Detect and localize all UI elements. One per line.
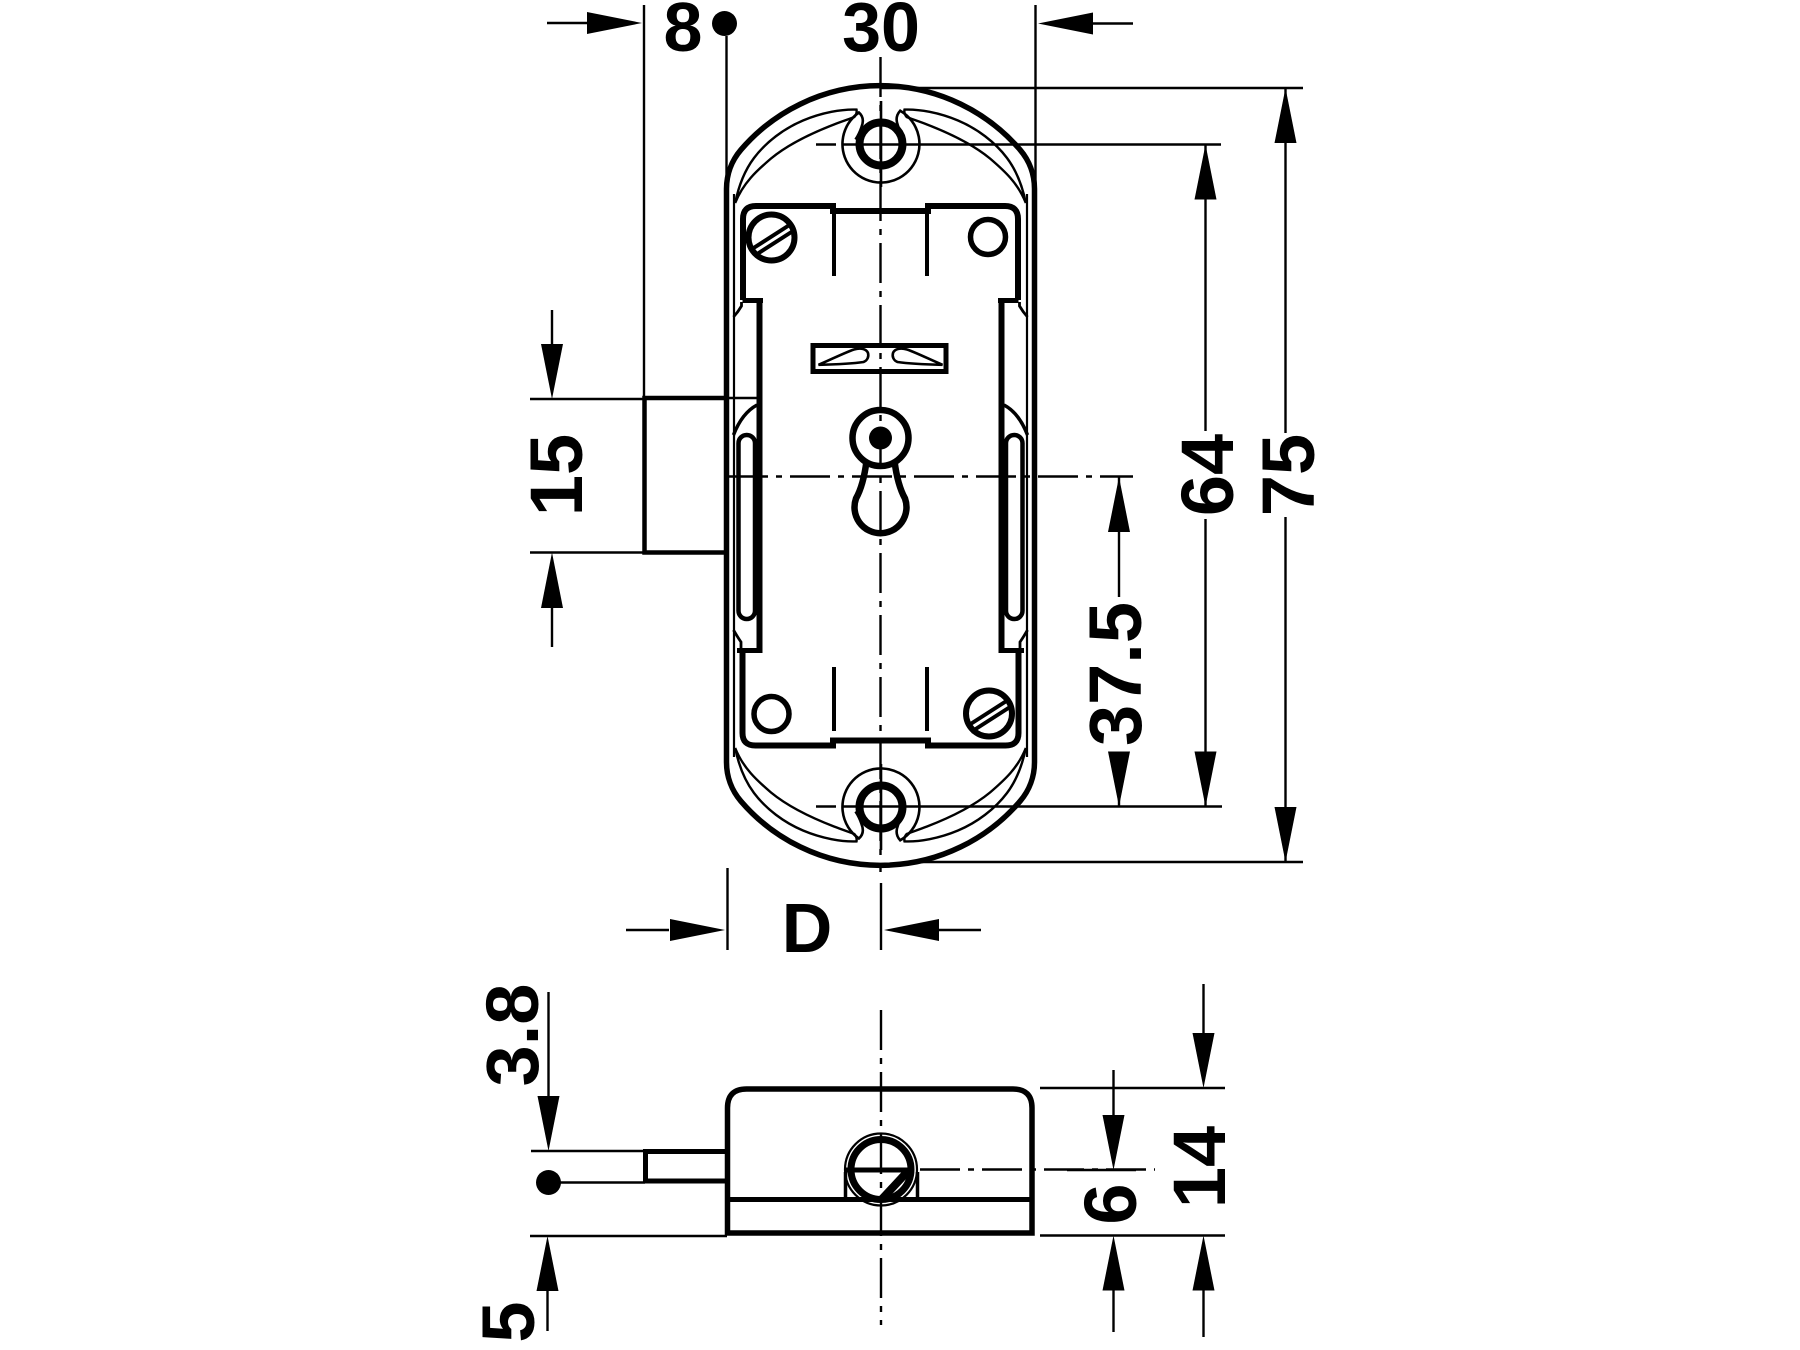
top screw axis line [816, 143, 1221, 145]
right flange column top cap [998, 298, 1019, 303]
dim 3.8/5: reference dot [536, 1170, 561, 1195]
side view plate/case divider [728, 1197, 1033, 1202]
vertical centerline (top view) [879, 57, 881, 872]
dim 30: arrow [1038, 13, 1133, 35]
svg-text:3.8: 3.8 [471, 984, 554, 1087]
dim 64: dimension line with arrows [1195, 145, 1217, 807]
lock case outline lower [743, 651, 1019, 746]
svg-text:15: 15 [515, 434, 598, 516]
dim 75: top extension line [880, 87, 1303, 89]
latch bolt (top view, protruding left) [645, 398, 727, 553]
dim 30: extension line right [1034, 5, 1036, 245]
dim 8: arrow [547, 12, 642, 34]
dim 8/30: reference dot [712, 11, 737, 36]
svg-text:30: 30 [842, 0, 920, 66]
svg-text:D: D [782, 889, 833, 967]
left flange top jog [734, 302, 742, 317]
bottom screw axis line [816, 805, 1222, 807]
side view vertical centerline [880, 1010, 882, 1325]
case tick marks lower [834, 667, 927, 731]
dim 8: extension line (plate left edge) [725, 36, 727, 250]
svg-text:75: 75 [1247, 434, 1330, 516]
case hole top-right [971, 220, 1006, 255]
dim 3.8: extension line [531, 1150, 645, 1152]
svg-text:37.5: 37.5 [1074, 602, 1157, 746]
side view latch bolt strip [646, 1152, 728, 1182]
dim 15: arrows [541, 310, 563, 647]
side view horizontal centerline [920, 1168, 1155, 1170]
right spring slot [1006, 435, 1023, 619]
right flange column bottom cap [999, 648, 1025, 653]
svg-text:64: 64 [1166, 434, 1249, 516]
left flange column bottom cap [737, 648, 763, 653]
side view cam pedestal [846, 1172, 918, 1199]
left spring upper arc [734, 405, 758, 435]
dim 3.8/5: dot reference line [560, 1181, 645, 1183]
dim 6/14: bottom extension line [1040, 1234, 1225, 1236]
dim 8: extension line left [643, 5, 645, 399]
right flange bottom jog [1020, 630, 1028, 649]
front plate inner edge left [733, 194, 735, 757]
dim 75: bottom extension line [920, 861, 1303, 863]
svg-text:14: 14 [1158, 1126, 1241, 1208]
case tick marks upper [834, 209, 927, 276]
left flange bottom jog [734, 630, 742, 649]
side view body outline [728, 1089, 1033, 1233]
lock case outline upper [743, 206, 1018, 300]
horizontal centerline (keyhole axis) [728, 475, 1133, 477]
dim 75: dimension line with arrows [1275, 88, 1297, 862]
right spring upper arc [1004, 405, 1028, 435]
dim D: left extension line [726, 868, 728, 950]
svg-text:6: 6 [1069, 1183, 1152, 1224]
side view cam screw [845, 1134, 917, 1206]
case screw bottom-right (slotted) [966, 691, 1012, 737]
dim 3.8: arrow [538, 992, 560, 1151]
dim 14: arrows [1193, 984, 1215, 1337]
dim 37.5: dimension line with arrows [1108, 477, 1130, 807]
front plate inner edge right [1026, 194, 1028, 757]
dim D: arrows [626, 919, 981, 941]
right flange top jog [1020, 302, 1028, 317]
dim 5: arrow [537, 1236, 559, 1331]
latch bolt hidden edge through flange [727, 397, 760, 399]
svg-text:8: 8 [664, 0, 703, 66]
slide plate with spring leaves [813, 346, 946, 372]
dim 14: top extension line [1040, 1087, 1225, 1089]
left spring slot [739, 435, 756, 619]
dim 6: centerline reference [1067, 1169, 1136, 1171]
dim 5: extension line [530, 1235, 727, 1237]
case screw top-left (slotted) [749, 215, 795, 261]
right flange column inner edge [999, 300, 1005, 650]
dim 6: arrows [1103, 1070, 1125, 1332]
front plate outline (oval plate) [727, 86, 1035, 866]
keyhole [853, 410, 909, 533]
svg-text:5: 5 [467, 1301, 550, 1342]
bottom mounting screw hole [735, 748, 1026, 850]
case hole bottom-left [754, 697, 789, 732]
dim D: right extension line [880, 883, 882, 950]
dim 15: extension lines [530, 399, 644, 553]
left flange column top cap [743, 298, 764, 303]
top mounting screw hole [735, 101, 1026, 203]
left flange column inner edge [757, 300, 763, 650]
